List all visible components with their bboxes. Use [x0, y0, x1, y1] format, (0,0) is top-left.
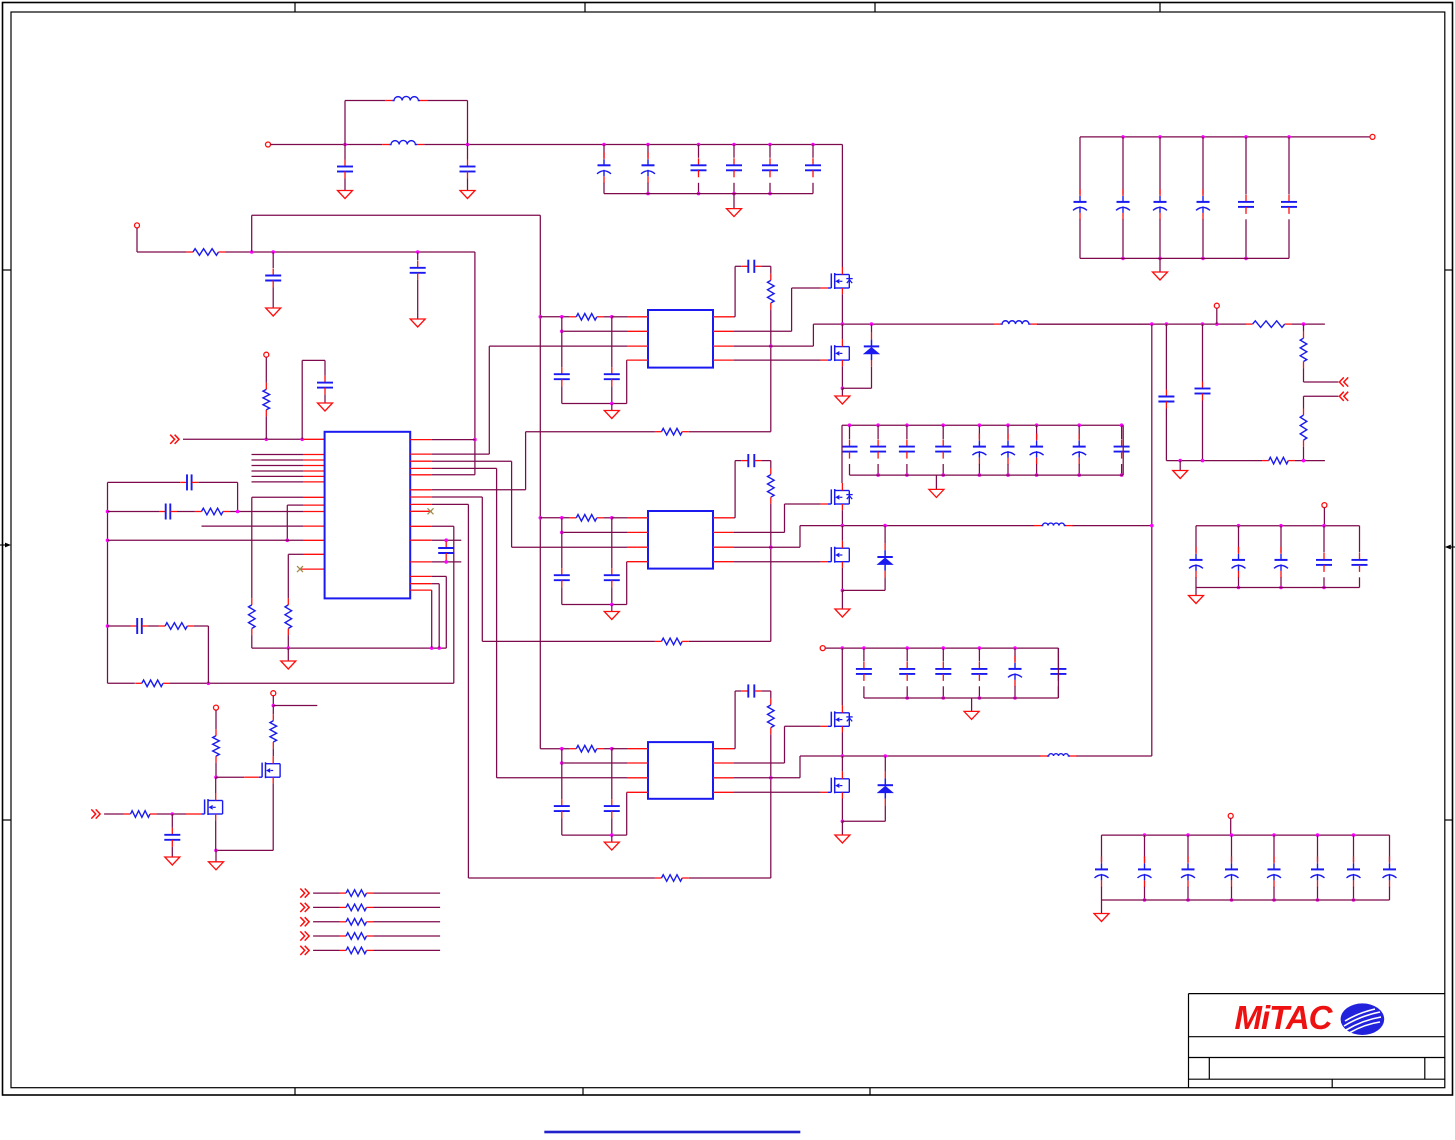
junction: [1237, 524, 1241, 528]
wire: [488, 346, 490, 454]
wire: [237, 482, 239, 511]
junction: [300, 438, 304, 442]
terminal: [264, 352, 269, 357]
pin: [410, 460, 432, 462]
wire: [108, 481, 181, 483]
port sense: [300, 889, 309, 898]
wire: [1317, 835, 1319, 862]
junction: [250, 250, 254, 254]
wire: [942, 425, 944, 439]
port FB-: [1339, 392, 1348, 401]
wire: [611, 749, 613, 799]
junction: [1316, 898, 1320, 902]
wire: [561, 386, 563, 403]
junction: [437, 646, 441, 650]
junction: [646, 192, 650, 196]
wire: [1165, 409, 1167, 461]
pin: [871, 360, 873, 367]
junction: [1302, 459, 1306, 463]
junction: [1077, 473, 1081, 477]
junction: [841, 387, 845, 391]
wire: [207, 626, 209, 683]
capacitor C9 (decoupling): [445, 542, 447, 549]
pin: [884, 799, 886, 806]
polarized capacitor C (bulk): [1036, 434, 1038, 441]
junction: [1035, 473, 1039, 477]
wire: [561, 749, 563, 799]
junction: [430, 646, 434, 650]
capacitor C (out): [1323, 553, 1325, 560]
pin: [713, 546, 734, 548]
wire: [432, 467, 497, 469]
wire: [525, 432, 527, 490]
wire bank bottom: [604, 193, 813, 195]
wire: [288, 553, 303, 555]
polarized capacitor C (bulk): [978, 434, 980, 441]
wire: [770, 310, 772, 432]
capacitor C2: [467, 160, 469, 167]
wire: [1353, 835, 1355, 862]
wire PWM3: [497, 777, 627, 779]
terminal VIN: [266, 142, 271, 147]
title block outline: [1189, 993, 1445, 995]
resistor R9: [1303, 332, 1305, 339]
wire: [812, 183, 814, 194]
pin: [410, 474, 432, 476]
wire: [734, 791, 821, 793]
wire: [1273, 835, 1275, 862]
frame tick left: [3, 819, 12, 821]
wire bank6 bottom: [1102, 899, 1390, 901]
junction: [1230, 898, 1234, 902]
wire: [1202, 324, 1204, 381]
wire: [1303, 368, 1305, 382]
wire: [603, 748, 611, 750]
capacitor C (bulk): [906, 662, 908, 669]
wire: [942, 686, 944, 698]
wire: [770, 266, 772, 274]
wire: [1122, 137, 1124, 195]
junction: [271, 250, 275, 254]
capacitor C (bulk): [812, 158, 814, 165]
wire: [562, 330, 627, 332]
wire EN row: [183, 438, 303, 440]
capacitor C (bulk): [733, 158, 735, 165]
junction: [884, 754, 888, 758]
junction: [1186, 833, 1190, 837]
pin: [303, 553, 325, 555]
wire: [734, 561, 821, 563]
junction: [610, 516, 614, 520]
junction: [286, 539, 290, 543]
wire: [841, 324, 843, 339]
wire: [1144, 835, 1146, 862]
wire: [467, 145, 469, 160]
wire: [1389, 887, 1391, 900]
ground: [318, 403, 333, 411]
pin: [713, 561, 734, 563]
wire bank3 bottom: [864, 697, 1059, 699]
wire: [841, 821, 843, 835]
junction: [841, 589, 845, 593]
wire: [438, 584, 440, 648]
wire: [978, 464, 980, 475]
wire: [467, 179, 469, 191]
resistor R (driver 3 in): [570, 748, 577, 750]
wire: [1280, 577, 1282, 587]
wire: [562, 834, 627, 836]
capacitor C (bootstrap 2): [741, 460, 748, 462]
junction: [1006, 423, 1010, 427]
pin: [410, 489, 432, 491]
wire: [841, 733, 843, 757]
wire: [432, 575, 447, 577]
capacitor C (in): [1245, 195, 1247, 202]
wire: [1159, 258, 1161, 272]
wire: [1057, 648, 1059, 661]
resistor R10: [1303, 409, 1305, 416]
junction: [1316, 833, 1320, 837]
wire VCC vertical: [539, 215, 541, 748]
junction: [214, 775, 218, 779]
wire: [1202, 401, 1204, 461]
frame tick top: [584, 3, 586, 13]
wire: [689, 431, 771, 433]
wire: [734, 762, 785, 764]
wire: [871, 367, 873, 389]
wire: [432, 583, 440, 585]
wire: [785, 503, 821, 505]
resistor R7: [159, 625, 166, 627]
pin (NC): [300, 568, 325, 570]
resistor R3: [251, 598, 253, 605]
wire: [427, 100, 467, 102]
wire: [265, 357, 267, 383]
junction: [1178, 459, 1182, 463]
wire bank2 bottom: [850, 474, 1124, 476]
wire: [467, 101, 469, 145]
resistor R5: [265, 383, 267, 390]
pin 3: [627, 546, 648, 548]
port sense: [300, 931, 309, 940]
wire: [467, 504, 469, 878]
wire: [942, 648, 944, 661]
junction: [848, 423, 852, 427]
wire: [272, 706, 274, 715]
pin: [884, 543, 886, 550]
junction: [876, 473, 880, 477]
terminal VIN3: [820, 646, 825, 651]
wire bank5 bottom: [1080, 257, 1289, 259]
wire: [496, 468, 498, 777]
wire: [272, 696, 274, 706]
junction: [560, 315, 564, 319]
wire: [770, 691, 772, 698]
wire: [301, 360, 303, 439]
controller U1: [325, 432, 411, 599]
wire: [733, 183, 735, 194]
wire: [877, 425, 879, 439]
wire: [272, 783, 274, 850]
ground: [266, 308, 281, 316]
junction: [416, 250, 420, 254]
wire: [1304, 395, 1339, 397]
wire: [104, 813, 124, 815]
junction: [1013, 646, 1017, 650]
wire return: [526, 431, 655, 433]
wire: [344, 101, 346, 145]
wire: [313, 921, 339, 923]
MITAC logo globe: [1341, 1003, 1385, 1035]
wire: [1288, 219, 1290, 258]
wire stub: [252, 475, 304, 477]
pin 4: [627, 791, 648, 793]
junction: [1201, 257, 1205, 261]
ground: [1094, 914, 1109, 922]
junction: [265, 438, 269, 442]
junction: [1279, 524, 1283, 528]
resistor R (sense): [340, 892, 347, 894]
ground: [410, 319, 425, 327]
wire left bus: [107, 482, 109, 683]
wire: [265, 416, 267, 439]
pin gate: [186, 813, 201, 815]
wire: [108, 682, 135, 684]
pin: [303, 475, 325, 477]
wire: [1166, 460, 1262, 462]
junction: [646, 143, 650, 147]
junction: [905, 423, 909, 427]
junction: [473, 438, 477, 442]
wire: [1291, 323, 1325, 325]
hyperlink underline: [544, 1131, 800, 1134]
junction: [876, 423, 880, 427]
wire: [1323, 526, 1325, 553]
resistor R (sense): [340, 949, 347, 951]
resistor R (bootstrap 1): [770, 274, 772, 281]
wire: [784, 726, 786, 763]
ground: [1173, 471, 1188, 479]
junction: [841, 820, 845, 824]
pin: [303, 481, 325, 483]
pin 1: [627, 517, 648, 519]
wire: [626, 792, 628, 835]
wire: [603, 316, 611, 318]
wire: [432, 439, 475, 441]
polarized capacitor C (out): [1238, 547, 1240, 554]
pin: [303, 438, 325, 440]
junction: [1120, 423, 1124, 427]
junction: [732, 143, 736, 147]
junction: [1143, 833, 1147, 837]
resistor R (sense): [340, 906, 347, 908]
wire: [344, 145, 346, 160]
wire: [373, 921, 440, 923]
junction: [905, 696, 909, 700]
wire: [137, 251, 186, 253]
wire phase output: [1077, 755, 1152, 757]
wire: [734, 691, 736, 749]
junction: [769, 776, 773, 780]
junction: [942, 696, 946, 700]
wire VCC top: [252, 214, 541, 216]
wire: [1007, 464, 1009, 475]
wire VIN: [271, 144, 383, 146]
wire: [1057, 686, 1059, 698]
pin: [713, 316, 734, 318]
ground: [835, 609, 850, 617]
polarized capacitor C (in): [1079, 189, 1081, 196]
resistor R (bootstrap 3): [770, 698, 772, 705]
resistor R1: [186, 251, 193, 253]
wire: [734, 345, 813, 347]
wire: [1187, 887, 1189, 900]
wire: [216, 849, 273, 851]
pin: [713, 791, 734, 793]
wire: [884, 756, 886, 772]
wire: [877, 464, 879, 475]
capacitor C (bootstrap 1): [741, 265, 748, 267]
port sense: [300, 903, 309, 912]
pin: [303, 454, 325, 456]
pin: [410, 439, 432, 441]
wire: [511, 461, 513, 547]
pin 4: [627, 359, 648, 361]
nmos Q1L (low side): [828, 359, 831, 361]
wire: [1323, 577, 1325, 587]
junction: [1120, 473, 1124, 477]
wire: [1303, 447, 1305, 461]
wire: [251, 215, 253, 252]
resistor R6: [135, 682, 142, 684]
terminal: [1322, 503, 1327, 508]
pin gate: [821, 791, 828, 793]
wire: [272, 252, 274, 268]
resistor R (ret 2): [655, 640, 662, 642]
junction: [697, 143, 701, 147]
terminal: [1370, 134, 1375, 139]
wire: [432, 489, 526, 491]
capacitor C7: [324, 376, 326, 383]
pin: [303, 539, 325, 541]
junction: [1272, 833, 1276, 837]
pin: [884, 571, 886, 578]
wire: [611, 317, 613, 367]
junction: [1272, 898, 1276, 902]
wire: [734, 461, 736, 518]
polarized capacitor C (out): [1280, 547, 1282, 554]
frame arrow right: [1447, 546, 1455, 548]
capacitor C3: [272, 269, 274, 276]
wire ground rail: [252, 647, 446, 649]
capacitor C10: [1165, 390, 1167, 397]
wire: [792, 287, 821, 289]
wire: [612, 748, 627, 750]
junction: [1121, 135, 1125, 139]
wire: [611, 587, 613, 604]
wire: [1353, 887, 1355, 900]
junction: [236, 510, 240, 514]
wire: [770, 504, 772, 642]
junction: [883, 524, 887, 528]
junction: [287, 646, 291, 650]
pin 2: [627, 330, 648, 332]
junction: [610, 747, 614, 751]
junction: [841, 524, 845, 528]
junction: [942, 646, 946, 650]
wire: [313, 935, 339, 937]
wire: [216, 776, 244, 778]
frame arrow left: [0, 544, 8, 546]
wire: [735, 265, 741, 267]
wire: [842, 589, 885, 591]
wire: [884, 806, 886, 822]
wire: [345, 100, 385, 102]
wire: [611, 605, 613, 612]
junction: [1121, 257, 1125, 261]
wire: [1295, 460, 1325, 462]
wire: [108, 625, 131, 627]
polarized capacitor C (bulk): [1007, 434, 1009, 441]
wire: [791, 288, 793, 331]
no-connect: [428, 508, 434, 514]
wire: [871, 324, 873, 333]
wire: [906, 686, 908, 698]
ground: [165, 857, 180, 865]
wire: [148, 625, 158, 627]
terminal: [271, 691, 276, 696]
pin: [410, 561, 432, 563]
wire: [734, 546, 800, 548]
resistor R12: [124, 813, 131, 815]
wire: [734, 266, 736, 317]
wire: [1289, 136, 1370, 138]
ground: [835, 835, 850, 843]
wire: [906, 464, 908, 475]
wire: [1165, 324, 1167, 389]
pin gate: [821, 725, 828, 727]
wire: [761, 265, 771, 267]
schottky diode D3: [884, 778, 886, 785]
polarized capacitor C (bulk): [603, 152, 605, 159]
ground: [460, 191, 475, 199]
resistor R2 (comp): [195, 511, 202, 513]
wire: [1101, 835, 1103, 862]
wire return: [482, 640, 655, 642]
wire PWM1: [489, 345, 627, 347]
wire: [432, 460, 512, 462]
wire: [432, 503, 469, 505]
ground: [964, 711, 979, 719]
capacitor C (bulk): [942, 662, 944, 669]
wire VIN to Q1 drain: [841, 145, 843, 268]
wire: [698, 145, 700, 158]
junction: [106, 510, 110, 514]
wire: [1273, 887, 1275, 900]
capacitor C (bulk): [849, 440, 851, 447]
wire: [194, 625, 209, 627]
wire: [1057, 648, 1059, 698]
polarized capacitor C (bulk): [647, 152, 649, 159]
resistor R14: [272, 714, 274, 721]
resistor R (ret 1): [655, 431, 662, 433]
pin: [410, 589, 432, 591]
wire: [1122, 425, 1124, 475]
junction: [862, 646, 866, 650]
terminal VCORE: [1214, 303, 1219, 308]
capacitor C (driver 1 a): [561, 367, 563, 374]
pin 1: [627, 316, 648, 318]
